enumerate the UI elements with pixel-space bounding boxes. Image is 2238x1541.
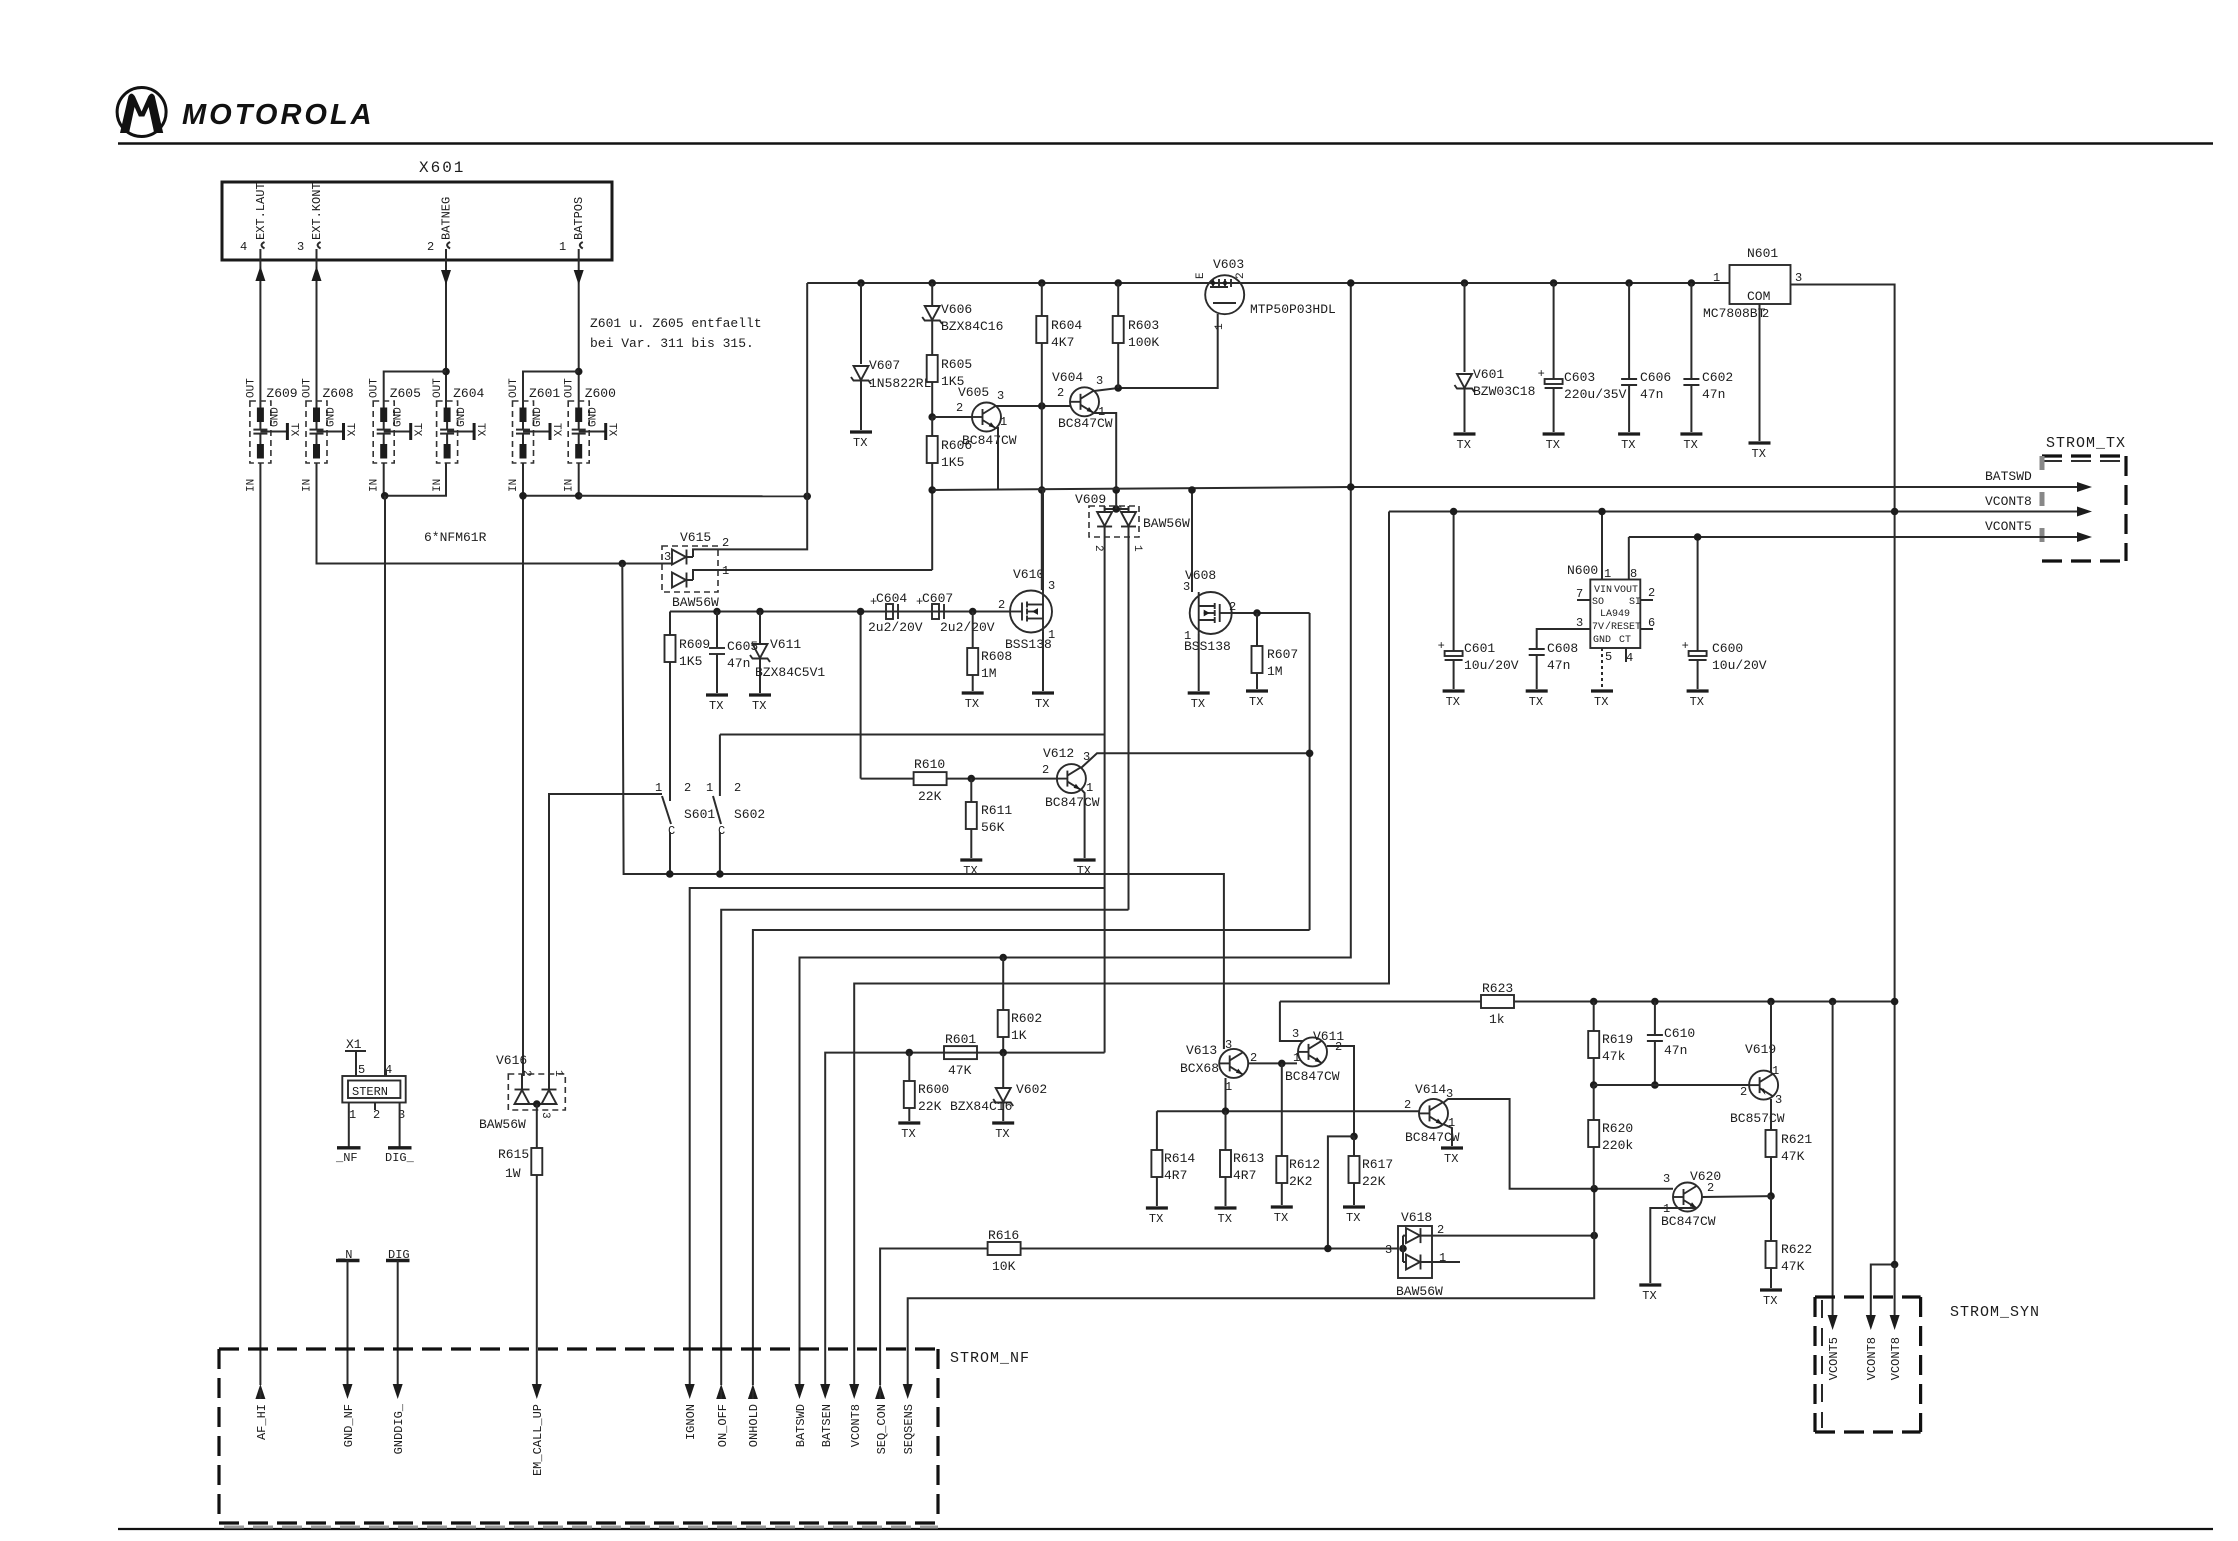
svg-text:CT: CT: [1619, 635, 1631, 646]
wire R609 column to S601: [669, 795, 671, 801]
svg-text:BC847CW: BC847CW: [962, 433, 1017, 448]
svg-text:47n: 47n: [1547, 658, 1570, 673]
svg-text:BAW56W: BAW56W: [1396, 1284, 1443, 1299]
svg-text:R605: R605: [941, 357, 972, 372]
X601 pin 3 EXT.KONT: [297, 182, 324, 260]
wire BATNEG down to STERN pin4: [384, 496, 386, 1076]
svg-text:V601: V601: [1473, 367, 1504, 382]
wire V611T collector to R623 corner: [1280, 1002, 1303, 1042]
wire BATSEN branch (R601 line): [825, 1053, 1104, 1385]
svg-text:V611: V611: [770, 637, 801, 652]
svg-text:V618: V618: [1401, 1210, 1432, 1225]
svg-text:GND: GND: [269, 407, 281, 427]
connector X601 box: [222, 182, 612, 260]
svg-text:100K: 100K: [1128, 335, 1159, 350]
double diode V616 BAW56W: [479, 1053, 565, 1148]
svg-text:bei Var. 311 bis 315.: bei Var. 311 bis 315.: [590, 336, 754, 351]
svg-text:4K7: 4K7: [1051, 335, 1074, 350]
svg-text:+: +: [870, 595, 877, 609]
zener V602 BZX84C16: [950, 1053, 1047, 1121]
wire BATNEG filters join: [384, 463, 446, 496]
svg-text:TX: TX: [606, 423, 618, 437]
wire V615 pin1 to R606 column: [728, 569, 932, 571]
svg-text:Z604: Z604: [453, 386, 484, 401]
svg-text:TX: TX: [550, 423, 562, 437]
svg-text:R607: R607: [1267, 647, 1298, 662]
capacitor C601 10u/20V: [1438, 508, 1519, 689]
svg-text:3: 3: [297, 240, 304, 254]
svg-text:TX: TX: [411, 423, 423, 437]
svg-text:22K: 22K: [918, 1099, 942, 1114]
svg-text:Z600: Z600: [585, 386, 616, 401]
svg-text:DIG_: DIG_: [385, 1151, 415, 1165]
svg-text:COM: COM: [1747, 289, 1770, 304]
svg-text:1N5822RL: 1N5822RL: [869, 376, 931, 391]
svg-text:GND: GND: [588, 407, 600, 427]
wire V610 drain up to gate line: [1042, 490, 1044, 591]
svg-text:6: 6: [1648, 616, 1655, 630]
resistor R609 1K5: [665, 612, 711, 796]
arrow GNDDIG (down): [392, 1384, 406, 1454]
capacitor C603 220u/35V: [1538, 279, 1627, 432]
svg-text:2: 2: [1404, 1098, 1411, 1112]
svg-text:V610: V610: [1013, 567, 1044, 582]
svg-text:1: 1: [1293, 1051, 1300, 1065]
arrow BATSEN (down): [820, 1384, 834, 1447]
svg-text:5: 5: [358, 1063, 365, 1077]
svg-text:LA949: LA949: [1600, 609, 1630, 620]
STROM_SYN dashed box: [1815, 1297, 1921, 1432]
svg-text:2: 2: [1042, 763, 1049, 777]
svg-text:GND: GND: [532, 407, 544, 427]
svg-text:1K5: 1K5: [941, 455, 964, 470]
wire EXT.KONT down to Z608: [316, 284, 318, 408]
wire bus C ON_OFF: [721, 910, 1128, 1385]
svg-text:47n: 47n: [1640, 387, 1663, 402]
wire V620 collector to R621/R622: [1702, 1195, 1771, 1198]
svg-text:2: 2: [722, 536, 729, 550]
svg-text:1: 1: [706, 781, 713, 795]
wire V610 source down to ground: [1042, 632, 1044, 691]
svg-text:3: 3: [1576, 616, 1583, 630]
svg-text:TX: TX: [344, 423, 356, 437]
fet V608 BSS138: [1183, 568, 1236, 654]
capacitor C604 2u2/20V: [868, 591, 932, 635]
svg-text:C608: C608: [1547, 641, 1578, 656]
arrow BATSWD (down): [794, 1384, 808, 1447]
svg-text:OUT: OUT: [432, 378, 444, 398]
box STERN X1: [342, 1063, 405, 1122]
node R602 bottom: [999, 1049, 1007, 1057]
arrow down BATPOS: [574, 260, 584, 285]
wire V604 emitter down: [1094, 413, 1116, 504]
wire EXT.LAUT down to Z609: [259, 284, 261, 408]
wire Z601 OUT up and over to BATPOS: [523, 372, 579, 408]
wire V605 collector to V604 base: [996, 405, 1070, 407]
resistor R600 22K: [904, 1053, 949, 1121]
label X1: [345, 1037, 366, 1076]
svg-text:BC847CW: BC847CW: [1045, 795, 1100, 810]
svg-text:3: 3: [539, 1112, 551, 1119]
svg-text:2: 2: [520, 1070, 532, 1077]
svg-text:22K: 22K: [918, 789, 942, 804]
svg-text:SEQ_CON: SEQ_CON: [875, 1404, 889, 1454]
bottom rule: [118, 1528, 2213, 1530]
svg-text:10u/20V: 10u/20V: [1464, 658, 1519, 673]
wire from gate loop corner to R610: [861, 778, 914, 780]
resistor R603 100K: [1113, 279, 1160, 388]
svg-text:C602: C602: [1702, 370, 1733, 385]
wire N601 pin2 to ground: [1759, 304, 1761, 441]
svg-text:IN: IN: [564, 479, 576, 492]
svg-text:47n: 47n: [1664, 1043, 1687, 1058]
svg-text:3: 3: [1225, 1038, 1232, 1052]
wire S602 pin2 to V609 column: [720, 734, 1105, 736]
wire EXT.KONT to V615 pin3: [317, 463, 661, 564]
X601 pin 2 BATNEG: [427, 197, 454, 260]
svg-text:220k: 220k: [1602, 1138, 1633, 1153]
svg-text:R602: R602: [1011, 1011, 1042, 1026]
wire SEQSENS line: [908, 1189, 1594, 1385]
svg-text:1: 1: [1772, 1064, 1779, 1078]
wire BATSWD interconnect (R606 to V608 gate): [932, 487, 1351, 490]
resistor R611 56K: [966, 779, 1013, 858]
svg-text:10K: 10K: [992, 1259, 1016, 1274]
wire V618 pin1 stub: [1421, 1261, 1460, 1263]
svg-text:OUT: OUT: [302, 378, 314, 398]
svg-text:BAW56W: BAW56W: [672, 595, 719, 610]
svg-text:R614: R614: [1164, 1151, 1195, 1166]
svg-text:+: +: [916, 595, 923, 609]
wire R605/R606 to V605 base: [932, 416, 972, 418]
svg-text:C606: C606: [1640, 370, 1671, 385]
svg-text:IN: IN: [369, 479, 381, 492]
svg-text:C603: C603: [1564, 370, 1595, 385]
transistor V603 MTP50P03HDL p-fet: [1195, 257, 1336, 330]
svg-text:SO: SO: [1592, 597, 1604, 608]
resistor R605 1K5: [927, 355, 973, 417]
wire bus A (S601/S602 common): [622, 564, 1224, 1045]
wire V608 pin1 to ground: [1198, 634, 1200, 691]
svg-text:3: 3: [664, 550, 671, 564]
svg-text:ON_OFF: ON_OFF: [716, 1404, 730, 1447]
svg-text:220u/35V: 220u/35V: [1564, 387, 1627, 402]
wire 1136 corner to V618 pin3 column: [1328, 1136, 1354, 1248]
transistor V605 BC847CW: [956, 385, 1017, 448]
node V618 pin3 junction: [1324, 1245, 1332, 1253]
svg-text:GND: GND: [393, 407, 405, 427]
wire VCONT8 net (left corner to arrow): [854, 512, 1389, 1386]
svg-text:IN: IN: [245, 479, 257, 492]
svg-text:V603: V603: [1213, 257, 1244, 272]
double diode V615 BAW56W: [660, 530, 729, 610]
svg-text:GND: GND: [1593, 635, 1611, 646]
wire V619 emitter up to R623 line: [1770, 1002, 1772, 1073]
switch S601: [655, 781, 715, 874]
arrow AF_HI (up): [255, 1384, 269, 1440]
svg-text:8: 8: [1630, 567, 1637, 581]
wire bus D ONHOLD: [753, 930, 1310, 1385]
wire BATPOS down to Z600: [578, 285, 580, 408]
svg-text:1W: 1W: [505, 1166, 521, 1181]
svg-text:1: 1: [552, 1070, 564, 1077]
svg-text:BZX84C5V1: BZX84C5V1: [755, 665, 825, 680]
arrow VCONT8 (down): [849, 1384, 863, 1447]
capacitor C606 47n: [1621, 279, 1671, 432]
STROM_NF dashed box: [219, 1349, 938, 1527]
resistor R608 1M: [967, 612, 1012, 692]
svg-text:56K: 56K: [981, 820, 1005, 835]
svg-text:BSS138: BSS138: [1184, 639, 1231, 654]
svg-text:2: 2: [998, 598, 1005, 612]
svg-text:5: 5: [1605, 650, 1612, 664]
svg-text:V609: V609: [1075, 492, 1106, 507]
svg-text:TX: TX: [474, 423, 486, 437]
svg-text:STROM_NF: STROM_NF: [950, 1350, 1030, 1367]
resistor R612 2K2: [1276, 1063, 1320, 1205]
transistor V614 BC847CW: [1404, 1082, 1460, 1145]
svg-text:47k: 47k: [1602, 1049, 1626, 1064]
svg-text:STERN: STERN: [352, 1085, 388, 1099]
svg-text:ONHOLD: ONHOLD: [747, 1404, 761, 1447]
wire BATSWD net (rail tap down to bus E and arrow): [800, 283, 1351, 1385]
svg-text:Z601 u. Z605 entfaellt: Z601 u. Z605 entfaellt: [590, 316, 762, 331]
svg-text:2u2/20V: 2u2/20V: [940, 620, 995, 635]
wire V605 emitter down to BATSWD line: [996, 428, 998, 490]
svg-text:VCONT5: VCONT5: [1827, 1337, 1841, 1380]
svg-text:3: 3: [1292, 1027, 1299, 1041]
wire VCONT8 branch of N601 drop into STROM_SYN: [1871, 1265, 1895, 1321]
svg-text:IN: IN: [302, 479, 314, 492]
net stub DIG (GNDDIG): [386, 1248, 410, 1385]
svg-text:Z608: Z608: [323, 386, 354, 401]
wire bus B IGNON: [690, 888, 1105, 1385]
svg-text:VCONT5: VCONT5: [1985, 519, 2032, 534]
wire VCONT8 to STROM_TX: [1389, 494, 2092, 517]
resistor R623 1k: [1280, 981, 1895, 1027]
svg-text:GNDDIG_: GNDDIG_: [392, 1403, 406, 1454]
svg-text:STROM_TX: STROM_TX: [2046, 435, 2126, 452]
wire V614 collector route to V620 base: [1443, 1099, 1673, 1189]
double diode V618 BAW56W: [1385, 1210, 1446, 1299]
svg-text:V614: V614: [1415, 1082, 1446, 1097]
svg-text:V612: V612: [1043, 746, 1074, 761]
svg-text:3: 3: [1096, 374, 1103, 388]
svg-text:V602: V602: [1016, 1082, 1047, 1097]
wire V619 base line: [1594, 1084, 1749, 1086]
svg-text:E: E: [1195, 272, 1207, 279]
svg-text:EM_CALL_UP: EM_CALL_UP: [531, 1404, 545, 1476]
arrow up EXT.KONT: [312, 260, 322, 284]
resistor R617 22K: [1349, 1136, 1394, 1205]
fet V610 BSS138: [998, 567, 1055, 652]
svg-text:3: 3: [1775, 1093, 1782, 1107]
wire main +BATT rail: [807, 282, 1717, 284]
svg-text:R601: R601: [945, 1032, 976, 1047]
wire V604 collector to R603 and V603 gate: [1094, 314, 1218, 391]
svg-text:C601: C601: [1464, 641, 1495, 656]
svg-text:7: 7: [1576, 587, 1583, 601]
svg-text:1: 1: [655, 781, 662, 795]
note text Z601 u. Z605: [590, 316, 762, 351]
wire Z605 OUT up and over to BATNEG: [384, 372, 446, 408]
resistor R619 47k: [1588, 1002, 1633, 1086]
node R611 top: [968, 775, 976, 783]
svg-text:BATSEN: BATSEN: [820, 1404, 834, 1447]
wire N600 pin8 up to VCONT5: [1628, 537, 1630, 580]
svg-text:BZW03C18: BZW03C18: [1473, 384, 1535, 399]
svg-text:2: 2: [1057, 386, 1064, 400]
wire BATPOS filters join: [523, 463, 579, 496]
wire gate loop from C604 node down to R610: [860, 612, 862, 779]
wire V604 gate column to V610: [1041, 406, 1043, 590]
Motorola logo emblem: [117, 88, 166, 137]
svg-text:1: 1: [1604, 567, 1611, 581]
arrow ONHOLD (up): [747, 1384, 761, 1447]
svg-text:Z605: Z605: [390, 386, 421, 401]
arrow SEQSENS (down): [902, 1384, 916, 1454]
svg-text:AF_HI: AF_HI: [255, 1404, 269, 1440]
arrow SEQ_CON (up): [875, 1384, 889, 1454]
transistor V612 BC847CW: [1042, 746, 1100, 810]
svg-text:4: 4: [1626, 651, 1633, 665]
svg-text:47K: 47K: [948, 1063, 972, 1078]
filter Z608: [302, 378, 356, 492]
filter Z601: [508, 378, 562, 492]
node BATPOS/Z601 tee: [575, 368, 583, 376]
svg-text:6*NFM61R: 6*NFM61R: [424, 530, 487, 545]
wire V613 base wire to V611T emitter: [1248, 1062, 1297, 1064]
wire V614 emitter to ground: [1443, 1124, 1452, 1146]
wire BATPOS filtered to rail riser: [579, 495, 808, 498]
filter Z605: [369, 378, 423, 492]
resistor R614 4R7: [1151, 1111, 1195, 1206]
wire N600 pin5 to ground: [1601, 648, 1603, 689]
filter Z604: [432, 378, 486, 492]
svg-text:2: 2: [1740, 1085, 1747, 1099]
wire N600 pin3 to C608: [1537, 629, 1591, 649]
resistor R615 1W: [498, 1147, 542, 1385]
wire V618 pin2 to R620 column: [1421, 1235, 1594, 1237]
node riser tee: [803, 493, 811, 501]
svg-text:1: 1: [1000, 415, 1007, 429]
wire BATNEG down to Z604: [445, 285, 447, 408]
svg-text:1: 1: [1131, 545, 1143, 552]
svg-text:R609: R609: [679, 637, 710, 652]
svg-text:BZX84C16: BZX84C16: [950, 1099, 1012, 1114]
wire V609 left column lower part: [1104, 888, 1106, 1053]
svg-text:Z601: Z601: [529, 386, 560, 401]
svg-text:1K5: 1K5: [679, 654, 702, 669]
wire N600 pin1 up to VCONT8: [1601, 512, 1603, 580]
wire V612 emitter to ground: [1081, 789, 1085, 858]
resistor R613 4R7: [1220, 1111, 1264, 1206]
arrow EM_CALL_UP (down): [531, 1384, 545, 1476]
wire V609 pin2 column down to bus B: [1104, 537, 1106, 888]
svg-text:OUT: OUT: [245, 378, 257, 398]
svg-text:OUT: OUT: [564, 378, 576, 398]
node V619 base line left: [1590, 1081, 1598, 1089]
svg-text:IN: IN: [432, 479, 444, 492]
svg-text:S602: S602: [734, 807, 765, 822]
arrow up EXT.LAUT: [255, 260, 265, 284]
svg-text:EXT.KONT: EXT.KONT: [310, 182, 324, 240]
wire gate drive line: [670, 611, 1010, 613]
svg-text:4R7: 4R7: [1164, 1168, 1187, 1183]
svg-text:BC847CW: BC847CW: [1058, 416, 1113, 431]
diode V607 1N5822RL: [851, 279, 931, 430]
svg-text:R604: R604: [1051, 318, 1082, 333]
svg-text:GND: GND: [456, 407, 468, 427]
svg-text:R621: R621: [1781, 1132, 1812, 1147]
node R602 top on bus E: [999, 954, 1007, 962]
svg-text:BAW56W: BAW56W: [479, 1117, 526, 1132]
svg-text:3: 3: [1048, 579, 1055, 593]
svg-text:2: 2: [684, 781, 691, 795]
double diode V609 BAW56W: [1075, 492, 1190, 552]
svg-text:V615: V615: [680, 530, 711, 545]
svg-text:1K: 1K: [1011, 1028, 1027, 1043]
node R600 top: [906, 1049, 914, 1057]
svg-text:3: 3: [997, 389, 1004, 403]
resistor R616 10K: [880, 1228, 1398, 1385]
regulator N600 LA949: [1567, 563, 1655, 665]
filter Z600: [564, 378, 618, 492]
svg-text:N600: N600: [1567, 563, 1598, 578]
wire V613 collector up (to bus A column): [1223, 1044, 1225, 1049]
svg-text:3: 3: [1663, 1172, 1670, 1186]
wire BATSWD to STROM_TX: [1351, 469, 2092, 492]
svg-text:2: 2: [1229, 600, 1236, 614]
svg-text:R600: R600: [918, 1082, 949, 1097]
svg-text:1M: 1M: [981, 666, 997, 681]
ground TX under V607: [850, 432, 872, 450]
transistor V620 BC847CW: [1661, 1169, 1721, 1229]
svg-text:VCONT8: VCONT8: [1865, 1337, 1879, 1380]
transistor V611 BC847CW (second): [1285, 1027, 1344, 1084]
svg-text:1k: 1k: [1489, 1012, 1505, 1027]
svg-text:R620: R620: [1602, 1121, 1633, 1136]
svg-text:10u/20V: 10u/20V: [1712, 658, 1767, 673]
svg-text:MTP50P03HDL: MTP50P03HDL: [1250, 302, 1336, 317]
arrow VCONT8 (down) into STROM_SYN: [1865, 1315, 1879, 1380]
svg-text:47n: 47n: [727, 656, 750, 671]
node BATNEG/Z605 tee: [442, 368, 450, 376]
svg-text:47n: 47n: [1702, 387, 1725, 402]
capacitor C610 47n: [1647, 1002, 1695, 1086]
svg-text:BC847CW: BC847CW: [1661, 1214, 1716, 1229]
wire V620 emitter to ground: [1650, 1208, 1697, 1283]
svg-text:R623: R623: [1482, 981, 1513, 996]
svg-text:VOUT: VOUT: [1614, 585, 1638, 596]
svg-text:R617: R617: [1362, 1157, 1393, 1172]
resistor R607 1M: [1252, 613, 1299, 689]
svg-text:_NF: _NF: [335, 1151, 358, 1165]
svg-text:47K: 47K: [1781, 1259, 1805, 1274]
svg-text:3: 3: [1183, 580, 1190, 594]
svg-text:BATNEG: BATNEG: [440, 197, 454, 240]
capacitor C607 2u2/20V: [916, 591, 995, 635]
svg-text:2K2: 2K2: [1289, 1174, 1312, 1189]
transistor V619 BC857CW (pnp): [1730, 1042, 1785, 1126]
svg-text:MC7808BT: MC7808BT: [1703, 306, 1766, 321]
svg-text:BCX68: BCX68: [1180, 1061, 1219, 1076]
X601 pin 4 EXT.LAUT: [240, 182, 268, 260]
svg-text:R619: R619: [1602, 1032, 1633, 1047]
STROM_TX dashed box: [2042, 456, 2126, 561]
svg-text:4: 4: [240, 240, 247, 254]
svg-text:IGNON: IGNON: [684, 1404, 698, 1440]
